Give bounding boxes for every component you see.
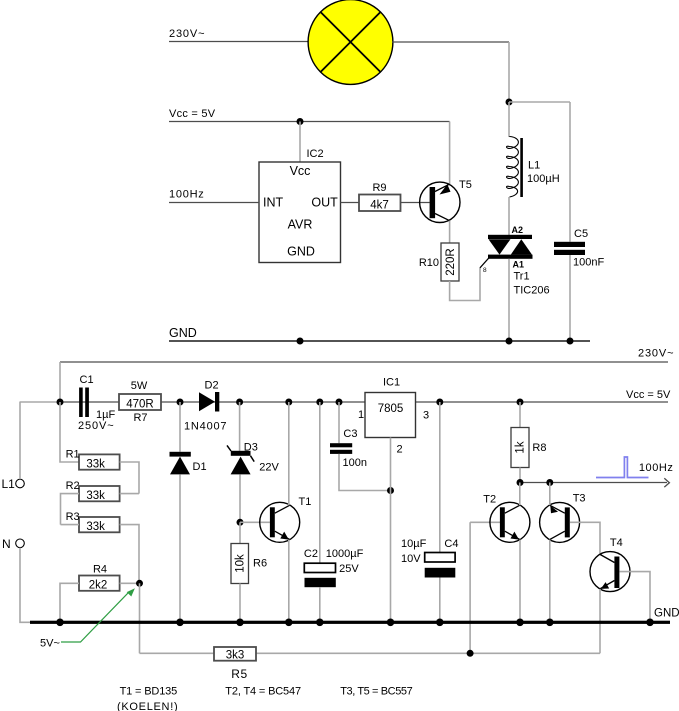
svg-text:Vcc: Vcc (290, 164, 311, 178)
node R8/T2 dot (517, 479, 524, 486)
inductor L1 100uH (507, 102, 560, 235)
capacitor C1 1uF 250V~ (78, 374, 115, 432)
svg-text:3k3: 3k3 (226, 650, 245, 662)
node T1 base junction dot (237, 519, 244, 526)
svg-text:1k: 1k (515, 441, 527, 453)
junction R6 GND (236, 619, 244, 627)
junction C2 GND (316, 619, 324, 627)
wire T2 base down to R5 line (469, 522, 471, 653)
svg-text:R3: R3 (66, 511, 80, 523)
junction D1 top (177, 399, 184, 406)
svg-text:25V: 25V (339, 563, 359, 575)
transistor T5 (PNP BC557) (420, 179, 472, 223)
node sense junction dot (136, 580, 143, 587)
junction R4 GND (56, 619, 64, 627)
svg-text:Vcc = 5V: Vcc = 5V (626, 389, 671, 401)
svg-text:GND: GND (287, 245, 315, 259)
svg-text:100µH: 100µH (527, 173, 560, 185)
node T2 base junction dot (467, 650, 474, 657)
R5 line (base drive) (140, 652, 601, 654)
junction C1/rail node (57, 399, 64, 406)
resistor R10 (419, 243, 459, 281)
capacitor C2 1000uF 25V (304, 402, 364, 622)
junction C3 top (336, 399, 343, 406)
svg-text:10µF: 10µF (401, 538, 427, 550)
svg-text:T4: T4 (610, 537, 623, 549)
svg-text:D2: D2 (205, 380, 219, 392)
svg-text:C1: C1 (80, 374, 94, 386)
wire T3 emitter up (549, 483, 551, 506)
svg-text:220R: 220R (445, 248, 457, 276)
svg-text:R5: R5 (231, 667, 248, 681)
svg-text:R1: R1 (66, 448, 80, 460)
svg-text:10k: 10k (235, 554, 247, 573)
svg-text:(KOELEN!): (KOELEN!) (117, 701, 178, 711)
GND rail (lower, thick) (30, 621, 670, 624)
wire sense node down to R5 line (139, 583, 141, 653)
svg-text:R10: R10 (419, 257, 439, 269)
wire T2 emitter to GND rail (519, 540, 521, 623)
svg-text:C2: C2 (304, 548, 318, 560)
wire T1 collector to row (288, 402, 290, 505)
junction T2 emitter GND (516, 619, 524, 627)
svg-text:1000µF: 1000µF (326, 548, 364, 560)
svg-text:3: 3 (423, 410, 429, 422)
svg-text:T3: T3 (573, 493, 586, 505)
svg-text:R4: R4 (93, 564, 107, 576)
junction IC2 GND (297, 338, 304, 345)
svg-text:T1 = BD135: T1 = BD135 (120, 686, 178, 698)
lamp La1 (bulb) (308, 0, 393, 84)
svg-text:L1: L1 (2, 477, 16, 491)
svg-text:IC2: IC2 (307, 148, 324, 160)
junction D3 top (236, 399, 243, 406)
svg-text:Tr1: Tr1 (514, 271, 530, 283)
svg-text:250V~: 250V~ (78, 420, 115, 432)
svg-text:100n: 100n (343, 457, 367, 469)
junction T4 base GND (646, 619, 654, 627)
svg-text:1N4007: 1N4007 (184, 421, 227, 433)
node T3 emitter dot (546, 479, 553, 486)
svg-text:100nF: 100nF (573, 257, 604, 269)
junction C4 GND (436, 619, 444, 627)
svg-text:4k7: 4k7 (370, 199, 389, 211)
terminal N (mains neutral) (2, 537, 30, 622)
regulator IC1 7805 (358, 377, 429, 456)
svg-text:230V~: 230V~ (169, 28, 205, 40)
svg-text:470R: 470R (126, 399, 154, 411)
svg-text:8: 8 (483, 267, 487, 274)
capacitor C5 100nF (554, 102, 604, 341)
svg-text:D1: D1 (193, 461, 207, 473)
svg-text:C5: C5 (574, 228, 588, 240)
pulse waveform symbol (596, 457, 649, 478)
resistor R5 3k3 (214, 647, 256, 681)
resistor chain R1 33k (60, 402, 139, 494)
svg-text:230V~: 230V~ (638, 348, 674, 360)
wire 230V~ rail corner down to row (59, 362, 61, 402)
resistor R3 33k (61, 511, 140, 583)
node junction dot (506, 99, 513, 106)
diode D2 1N4007 (184, 380, 227, 433)
wire triac A1 to GND rail (508, 259, 510, 341)
svg-text:T2, T4 = BC547: T2, T4 = BC547 (225, 686, 301, 698)
junction IC1 pin2 GND (387, 619, 395, 627)
svg-text:T2: T2 (483, 494, 496, 506)
junction C5 GND (567, 338, 574, 345)
wire IC1 pin2 to GND rail (390, 438, 392, 623)
svg-text:T1: T1 (299, 496, 312, 508)
junction T1 emitter GND (285, 619, 293, 627)
svg-text:100Hz: 100Hz (639, 462, 674, 474)
svg-text:R2: R2 (66, 480, 80, 492)
triac Tr1 TIC206 (488, 225, 550, 297)
wire 100Hz to INT (169, 202, 259, 204)
transistor T4 (NPN BC547) (590, 537, 630, 592)
svg-text:INT: INT (263, 196, 284, 210)
resistor R7 470R 5W (119, 380, 161, 424)
junction T1 collector (285, 399, 292, 406)
svg-text:2k2: 2k2 (89, 580, 108, 592)
wire R9 to T5 base (401, 202, 430, 204)
wire lamp to right corner (392, 41, 509, 43)
resistor R6 10k (231, 522, 267, 622)
junction C4 top (436, 399, 443, 406)
svg-text:Vcc = 5V: Vcc = 5V (169, 108, 216, 120)
zener D3 22V (227, 402, 280, 522)
svg-text:OUT: OUT (311, 196, 338, 210)
svg-text:GND: GND (169, 326, 197, 340)
capacitor C3 100n (330, 402, 391, 491)
svg-text:2: 2 (397, 444, 403, 456)
svg-text:T3, T5 = BC557: T3, T5 = BC557 (340, 686, 412, 698)
resistor R4 2k2 (60, 564, 140, 623)
svg-text:100Hz: 100Hz (169, 189, 205, 201)
wire R10 to triac gate (450, 268, 480, 301)
output line 100Hz (520, 482, 667, 484)
wire OUT to R9 (341, 202, 360, 204)
diode D1 (170, 402, 207, 622)
wire T5 collector to R10 (449, 221, 451, 243)
transistor T2 (NPN BC547) (470, 494, 530, 543)
svg-text:A1: A1 (513, 259, 525, 269)
junction D1 GND (176, 619, 184, 627)
svg-text:33k: 33k (86, 459, 105, 471)
wire T4 base to GND rail (619, 572, 650, 623)
transistor T1 (NPN BD135) (240, 496, 311, 542)
svg-text:C4: C4 (444, 538, 458, 550)
svg-text:22V: 22V (259, 462, 279, 474)
svg-text:TIC206: TIC206 (514, 285, 550, 297)
230V~ rail (lower) (60, 361, 668, 363)
svg-text:10V: 10V (401, 553, 421, 565)
svg-text:R6: R6 (253, 558, 267, 570)
svg-text:D3: D3 (244, 442, 258, 454)
svg-text:R7: R7 (133, 412, 147, 424)
annotation 5V~ green arrow (40, 588, 135, 649)
svg-text:A2: A2 (512, 225, 524, 235)
node C3/pin2 junction dot (387, 487, 394, 494)
svg-text:L1: L1 (528, 160, 540, 172)
svg-text:AVR: AVR (288, 218, 313, 232)
svg-text:C3: C3 (343, 428, 357, 440)
resistor R9 (359, 182, 401, 211)
wire Vcc rail to IC2 (299, 122, 301, 163)
svg-text:5V~: 5V~ (40, 638, 60, 650)
junction R8 top (517, 399, 524, 406)
wire node to C5 branch (509, 101, 570, 103)
wire Vcc rail to T5 emitter (449, 122, 451, 185)
svg-text:N: N (2, 537, 11, 551)
wire T3 collector to GND rail (549, 540, 551, 623)
GND rail (top section) (169, 340, 590, 342)
output arrowhead (664, 478, 669, 487)
svg-text:T5: T5 (459, 179, 472, 191)
svg-text:7805: 7805 (378, 403, 404, 415)
svg-text:5W: 5W (131, 380, 148, 392)
resistor R8 1k (511, 402, 546, 483)
transistor T3 (PNP BC557) (540, 493, 600, 555)
gate lead diagonal (480, 257, 490, 268)
Vcc rail (top) (169, 121, 450, 123)
wire 230V~ to lamp (169, 41, 308, 43)
svg-text:IC1: IC1 (383, 377, 400, 389)
wire T2 collector up (519, 483, 521, 506)
op IC2 AVR box (259, 148, 341, 263)
svg-text:33k: 33k (86, 490, 105, 502)
junction T3 collector GND (546, 619, 554, 627)
svg-text:1: 1 (358, 409, 364, 421)
svg-text:R9: R9 (372, 182, 386, 194)
junction dot Vcc/IC2 (297, 118, 304, 125)
junction triac A1 GND (506, 338, 513, 345)
svg-text:33k: 33k (86, 521, 105, 533)
terminal L1 (mains live) (2, 402, 25, 491)
wire down to node (508, 42, 510, 102)
wire T1 emitter to GND rail (288, 540, 290, 623)
junction C2 top (316, 399, 323, 406)
main supply row (20, 401, 61, 403)
svg-text:R8: R8 (532, 442, 546, 454)
resistor R2 33k (61, 480, 140, 525)
svg-text:GND: GND (654, 608, 679, 620)
wire T4 emitter down to R5 line (599, 589, 601, 653)
capacitor C4 10uF 10V (401, 402, 458, 622)
